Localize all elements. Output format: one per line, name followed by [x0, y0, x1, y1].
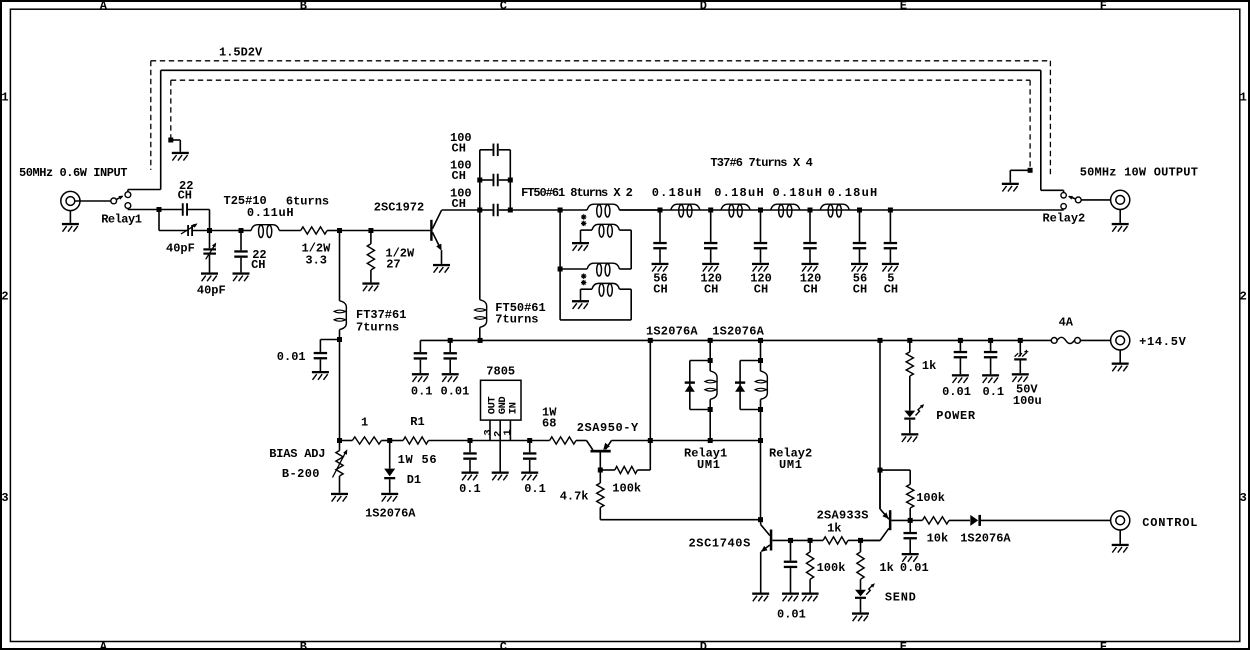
- svg-text:B: B: [300, 0, 307, 13]
- svg-text:0.01: 0.01: [900, 561, 929, 575]
- svg-text:CH: CH: [452, 197, 466, 211]
- svg-text:0.01: 0.01: [441, 385, 470, 399]
- svg-text:4A: 4A: [1059, 316, 1074, 330]
- svg-text:CONTROL: CONTROL: [1142, 516, 1198, 530]
- svg-text:0.01: 0.01: [777, 608, 806, 622]
- svg-text:1S2076A: 1S2076A: [365, 507, 416, 521]
- svg-text:10k: 10k: [927, 532, 949, 546]
- svg-text:CH: CH: [653, 283, 667, 297]
- svg-text:1W 56: 1W 56: [398, 453, 438, 467]
- svg-text:CH: CH: [754, 283, 768, 297]
- svg-text:100k: 100k: [612, 482, 641, 496]
- svg-text:D: D: [700, 0, 707, 13]
- svg-text:1S2076A: 1S2076A: [646, 324, 698, 338]
- svg-text:1: 1: [502, 429, 514, 435]
- svg-text:POWER: POWER: [936, 409, 976, 423]
- svg-text:D1: D1: [407, 473, 421, 487]
- svg-text:1: 1: [1240, 90, 1247, 104]
- svg-text:T37#6 7turns X 4: T37#6 7turns X 4: [710, 156, 812, 170]
- svg-text:40pF: 40pF: [197, 284, 226, 298]
- svg-text:1k: 1k: [879, 561, 893, 575]
- svg-text:CH: CH: [803, 283, 817, 297]
- svg-text:27: 27: [386, 258, 400, 272]
- svg-text:F: F: [1100, 640, 1107, 650]
- svg-text:2SA933S: 2SA933S: [817, 508, 869, 522]
- svg-text:0.18uH: 0.18uH: [652, 186, 703, 200]
- svg-text:0.18uH: 0.18uH: [714, 186, 765, 200]
- svg-text:IN: IN: [508, 402, 520, 414]
- svg-text:0.1: 0.1: [983, 385, 1005, 399]
- svg-text:CH: CH: [884, 283, 898, 297]
- svg-text:0.1: 0.1: [524, 482, 546, 496]
- svg-text:7turns: 7turns: [495, 313, 538, 327]
- svg-text:68: 68: [542, 417, 556, 431]
- svg-text:E: E: [900, 0, 907, 13]
- svg-text:7turns: 7turns: [356, 321, 399, 335]
- svg-text:100k: 100k: [817, 561, 846, 575]
- svg-text:0.18uH: 0.18uH: [773, 186, 824, 200]
- svg-text:100u: 100u: [1013, 394, 1042, 408]
- svg-text:CH: CH: [452, 169, 466, 183]
- svg-text:3: 3: [1240, 491, 1247, 505]
- svg-text:FT50#61 8turns X 2: FT50#61 8turns X 2: [521, 186, 633, 200]
- svg-text:1S2076A: 1S2076A: [960, 532, 1011, 546]
- svg-text:B-200: B-200: [282, 467, 320, 481]
- svg-text:CH: CH: [251, 258, 265, 272]
- svg-text:100k: 100k: [916, 491, 945, 505]
- svg-text:0.01: 0.01: [942, 385, 971, 399]
- svg-text:1: 1: [1, 90, 8, 104]
- svg-text:50MHz 0.6W INPUT: 50MHz 0.6W INPUT: [19, 166, 127, 180]
- svg-text:0.1: 0.1: [411, 385, 433, 399]
- svg-text:+14.5V: +14.5V: [1139, 335, 1187, 349]
- svg-text:2SC1972: 2SC1972: [374, 201, 424, 215]
- svg-text:0.18uH: 0.18uH: [828, 186, 879, 200]
- svg-text:CH: CH: [452, 142, 466, 156]
- svg-text:R1: R1: [410, 415, 424, 429]
- svg-text:CH: CH: [178, 189, 192, 203]
- svg-text:4.7k: 4.7k: [560, 490, 589, 504]
- svg-text:3.3: 3.3: [305, 254, 327, 268]
- svg-text:UM1: UM1: [779, 458, 803, 472]
- svg-text:B: B: [300, 640, 307, 650]
- svg-text:1k: 1k: [922, 359, 936, 373]
- svg-text:1: 1: [361, 416, 368, 430]
- svg-text:A: A: [100, 0, 108, 13]
- svg-text:BIAS ADJ: BIAS ADJ: [269, 447, 325, 461]
- svg-text:1S2076A: 1S2076A: [712, 324, 764, 338]
- svg-text:F: F: [1100, 0, 1107, 13]
- svg-text:Relay1: Relay1: [101, 213, 142, 227]
- svg-text:1k: 1k: [827, 522, 841, 536]
- svg-text:A: A: [100, 640, 108, 650]
- svg-text:E: E: [900, 640, 907, 650]
- svg-text:C: C: [500, 0, 507, 13]
- svg-text:Relay2: Relay2: [1043, 212, 1086, 226]
- svg-text:0.11uH: 0.11uH: [247, 206, 294, 220]
- svg-text:D: D: [700, 640, 707, 650]
- svg-text:2SA950-Y: 2SA950-Y: [577, 421, 639, 435]
- svg-text:1.5D2V: 1.5D2V: [219, 46, 263, 60]
- svg-text:2: 2: [1, 289, 8, 303]
- svg-text:40pF: 40pF: [166, 242, 195, 256]
- svg-text:SEND: SEND: [885, 591, 917, 605]
- svg-text:7805: 7805: [486, 365, 515, 379]
- svg-text:50MHz 10W OUTPUT: 50MHz 10W OUTPUT: [1080, 165, 1198, 179]
- svg-text:2SC1740S: 2SC1740S: [689, 537, 751, 551]
- svg-text:3: 3: [1, 491, 8, 505]
- svg-text:UM1: UM1: [697, 458, 721, 472]
- svg-text:CH: CH: [853, 283, 867, 297]
- svg-text:C: C: [500, 640, 507, 650]
- svg-text:0.1: 0.1: [459, 482, 481, 496]
- svg-text:2: 2: [1240, 289, 1247, 303]
- svg-text:0.01: 0.01: [277, 350, 306, 364]
- svg-text:CH: CH: [704, 283, 718, 297]
